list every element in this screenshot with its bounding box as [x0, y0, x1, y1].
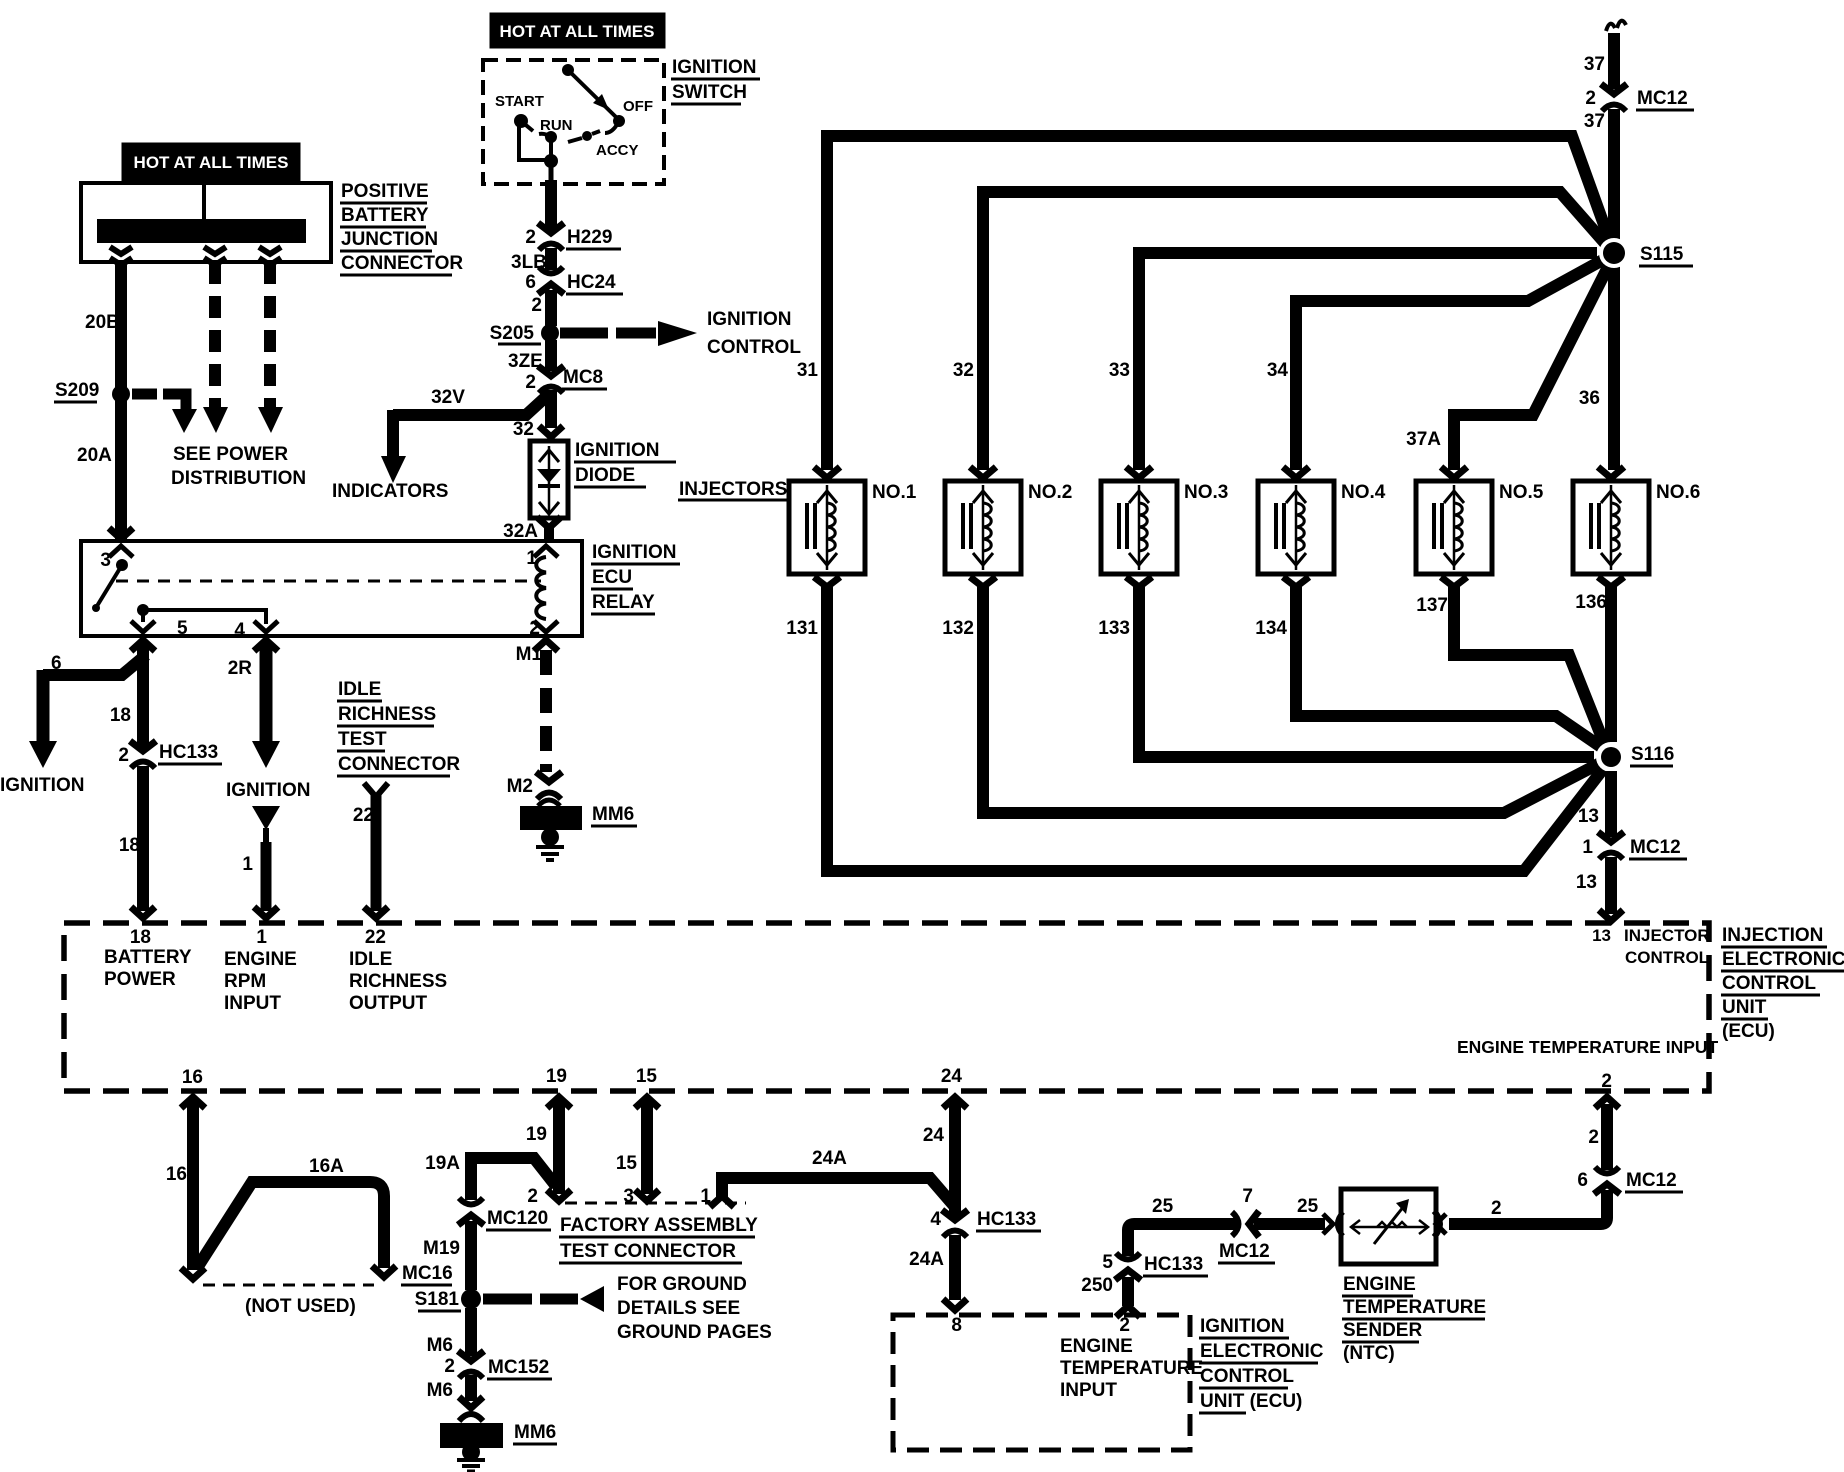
svg-text:1: 1 [526, 548, 537, 569]
node S115 [1599, 238, 1629, 268]
connector MC8 [538, 366, 564, 393]
svg-text:ELECTRONIC: ELECTRONIC [1200, 1341, 1324, 1362]
underlines sender circuit [976, 1230, 1041, 1233]
svg-text:MC12: MC12 [1626, 1170, 1677, 1191]
relay actuation dashed link [116, 580, 541, 583]
svg-text:GROUND PAGES: GROUND PAGES [617, 1322, 772, 1343]
svg-text:4: 4 [930, 1209, 941, 1230]
node S116 [1596, 742, 1626, 772]
contact ACCY [582, 131, 592, 141]
svg-text:RICHNESS: RICHNESS [349, 971, 447, 992]
wire 6 branch [43, 655, 146, 675]
connector MC120 [458, 1198, 484, 1225]
ECU pin 13 entry fork [1599, 910, 1623, 921]
svg-text:13: 13 [1576, 872, 1597, 893]
connector MC12 (13) [1598, 832, 1624, 859]
svg-text:2: 2 [529, 618, 540, 639]
svg-text:13: 13 [1592, 926, 1611, 945]
svg-text:CONNECTOR: CONNECTOR [338, 754, 460, 775]
wire 36 [1608, 262, 1620, 470]
svg-text:1: 1 [256, 927, 267, 948]
wire power feed 2 (dashed) [209, 262, 221, 407]
svg-text:FACTORY ASSEMBLY: FACTORY ASSEMBLY [560, 1215, 758, 1236]
svg-text:M1: M1 [516, 644, 543, 665]
svg-text:S115: S115 [1640, 244, 1684, 265]
svg-text:32: 32 [513, 419, 534, 440]
svg-text:4: 4 [234, 620, 245, 641]
svg-text:32A: 32A [503, 521, 538, 542]
svg-text:134: 134 [1255, 618, 1287, 639]
svg-text:IGNITION: IGNITION [226, 780, 310, 801]
svg-text:ACCY: ACCY [596, 142, 639, 159]
svg-text:1: 1 [242, 854, 253, 875]
svg-text:S209: S209 [55, 380, 99, 401]
svg-text:IGNITION: IGNITION [592, 542, 676, 563]
svg-text:S181: S181 [415, 1289, 460, 1310]
svg-text:2: 2 [525, 227, 536, 248]
svg-text:3: 3 [623, 1186, 634, 1207]
underline S209 [54, 401, 97, 404]
underline positive battery junction connector [340, 202, 427, 205]
svg-text:TEMPERATURE: TEMPERATURE [1343, 1297, 1486, 1318]
svg-text:1: 1 [700, 1186, 711, 1207]
svg-text:24: 24 [941, 1066, 963, 1087]
relay box [81, 541, 582, 636]
svg-text:2: 2 [531, 295, 542, 316]
svg-text:ENGINE: ENGINE [224, 949, 297, 970]
svg-text:133: 133 [1098, 618, 1130, 639]
pin 24 fork [943, 1097, 967, 1108]
svg-text:15: 15 [636, 1066, 658, 1087]
wire 131 [827, 585, 1607, 871]
pin 2 below-box fork [534, 640, 558, 651]
svg-text:137: 137 [1416, 595, 1448, 616]
svg-text:25: 25 [1152, 1196, 1174, 1217]
wire 3LB [545, 248, 557, 270]
injector NO.5 [1416, 467, 1492, 587]
svg-text:MC152: MC152 [488, 1357, 549, 1378]
underlines fan area [1636, 109, 1694, 112]
wire 22 [371, 795, 382, 911]
svg-text:POWER: POWER [104, 969, 176, 990]
svg-text:INDICATORS: INDICATORS [332, 481, 448, 502]
svg-text:HC133: HC133 [977, 1209, 1036, 1230]
wire 24A lower [949, 1235, 961, 1300]
wire S181 ground ref (dashed, arrow left) [483, 1294, 532, 1305]
svg-text:MC8: MC8 [563, 367, 603, 388]
wire 32V branch [393, 394, 549, 415]
svg-text:M6: M6 [427, 1380, 453, 1401]
sender internal rheostat [1352, 1226, 1427, 1229]
svg-text:INJECTOR: INJECTOR [1624, 926, 1710, 945]
svg-text:CONTROL: CONTROL [707, 337, 801, 358]
svg-text:20B: 20B [85, 312, 120, 333]
wire 1 connector arrow [252, 806, 280, 830]
svg-text:32: 32 [953, 360, 974, 381]
injector NO.6 [1573, 467, 1649, 587]
svg-text:MM6: MM6 [592, 804, 634, 825]
svg-text:START: START [495, 93, 544, 110]
svg-text:3ZE: 3ZE [508, 351, 543, 372]
svg-text:NO.1: NO.1 [872, 482, 917, 503]
svg-text:TEST: TEST [338, 729, 387, 750]
svg-text:UNIT: UNIT [1722, 997, 1767, 1018]
svg-text:16A: 16A [309, 1156, 344, 1177]
wire 250 fork [1116, 1306, 1140, 1317]
svg-text:HOT AT ALL TIMES: HOT AT ALL TIMES [500, 22, 655, 41]
wire 31 [827, 136, 1612, 470]
svg-text:IGNITION: IGNITION [1200, 1316, 1284, 1337]
connector pin 20B [110, 247, 132, 254]
wire 19 [553, 1100, 565, 1194]
connector HC24 [538, 267, 564, 294]
svg-text:(ECU): (ECU) [1722, 1021, 1775, 1042]
sender right connector [1436, 1214, 1446, 1234]
svg-text:19: 19 [546, 1066, 567, 1087]
svg-text:IDLE: IDLE [338, 679, 381, 700]
connector HC133 (5) [1115, 1253, 1141, 1280]
label HOT AT ALL TIMES (left) [122, 143, 300, 181]
svg-text:25: 25 [1297, 1196, 1319, 1217]
svg-text:3LB: 3LB [511, 252, 547, 273]
wire 2 [1449, 1190, 1607, 1224]
positive battery junction connector box [81, 183, 331, 262]
wire 19A branch [471, 1158, 556, 1200]
svg-text:24A: 24A [909, 1249, 944, 1270]
svg-text:250: 250 [1081, 1275, 1113, 1296]
wire 37 lower [1608, 109, 1620, 243]
ECU pin 2 fork [1595, 1097, 1619, 1108]
wire M1/M2 dashed [540, 650, 552, 772]
svg-text:RUN: RUN [540, 117, 573, 134]
svg-text:3: 3 [100, 550, 111, 571]
injector NO.3 [1101, 467, 1177, 587]
node S209 [112, 385, 130, 403]
connector H229 [538, 223, 564, 250]
switch blade wire [568, 70, 618, 119]
connector pin right [259, 247, 281, 254]
svg-text:5: 5 [1102, 1252, 1113, 1273]
svg-text:DIODE: DIODE [575, 465, 635, 486]
connector pin mid [204, 247, 226, 254]
wire 18 from pin 5 [137, 644, 149, 747]
svg-text:UNIT (ECU): UNIT (ECU) [1200, 1391, 1302, 1412]
wire start to junction [519, 124, 549, 160]
svg-text:18: 18 [130, 927, 151, 948]
wire 134 [1296, 585, 1607, 751]
svg-text:RICHNESS: RICHNESS [338, 704, 436, 725]
svg-text:(NTC): (NTC) [1343, 1343, 1395, 1364]
contact OFF [613, 115, 625, 127]
svg-text:131: 131 [786, 618, 818, 639]
svg-text:TEMPERATURE: TEMPERATURE [1060, 1358, 1203, 1379]
svg-text:22: 22 [365, 927, 386, 948]
contact RUN [545, 131, 557, 143]
connector M2 [536, 772, 562, 799]
wire 25 [1128, 1224, 1237, 1256]
svg-text:BATTERY: BATTERY [104, 947, 192, 968]
svg-text:2: 2 [527, 1186, 538, 1207]
node S181 [461, 1289, 481, 1309]
ground MM6 [520, 806, 582, 830]
underlines bottom left [486, 1229, 551, 1232]
wire 37 top with break [1606, 24, 1615, 31]
wire 2 upper [1601, 1104, 1613, 1170]
svg-text:136: 136 [1575, 592, 1607, 613]
svg-text:INPUT: INPUT [1060, 1380, 1117, 1401]
svg-text:CONTROL: CONTROL [1200, 1366, 1294, 1387]
wire 15 [641, 1100, 653, 1194]
wire 37A [1454, 259, 1612, 470]
ECU pin 18 entry fork [131, 907, 155, 918]
wire 34 [1296, 256, 1610, 470]
wire 2R from pin 4 [260, 644, 273, 743]
svg-text:ELECTRONIC: ELECTRONIC [1722, 949, 1844, 970]
svg-text:H229: H229 [567, 227, 612, 248]
underlines injection ECU [1721, 946, 1827, 949]
svg-text:INJECTORS: INJECTORS [679, 479, 787, 500]
svg-text:JUNCTION: JUNCTION [341, 229, 438, 250]
svg-text:2R: 2R [228, 658, 253, 679]
injector NO.2 [945, 467, 1021, 587]
svg-text:19A: 19A [425, 1153, 460, 1174]
svg-text:18: 18 [119, 835, 140, 856]
svg-text:1: 1 [1582, 837, 1593, 858]
svg-text:IDLE: IDLE [349, 949, 392, 970]
relay lower contact [137, 604, 149, 616]
svg-text:MC16: MC16 [402, 1263, 453, 1284]
svg-text:MC12: MC12 [1630, 837, 1681, 858]
svg-text:2: 2 [1585, 88, 1596, 109]
svg-text:(NOT USED): (NOT USED) [245, 1296, 356, 1317]
pin 15 fork [635, 1097, 659, 1108]
svg-text:S205: S205 [490, 323, 535, 344]
underlines ignition switch area [671, 78, 760, 81]
svg-text:MC12: MC12 [1637, 88, 1688, 109]
svg-text:31: 31 [797, 360, 819, 381]
wire 16A loop [197, 1182, 384, 1268]
svg-text:24A: 24A [812, 1148, 847, 1169]
svg-text:33: 33 [1109, 360, 1130, 381]
svg-text:MM6: MM6 [514, 1422, 556, 1443]
wire 133 [1139, 585, 1594, 757]
svg-text:CONTROL: CONTROL [1625, 948, 1709, 967]
connector HC133 [130, 741, 156, 768]
bus bar [97, 219, 306, 243]
svg-text:13: 13 [1578, 806, 1599, 827]
svg-text:NO.4: NO.4 [1341, 482, 1386, 503]
svg-text:M19: M19 [423, 1238, 460, 1259]
svg-text:ENGINE: ENGINE [1343, 1274, 1416, 1295]
idle richness test connector fork [364, 783, 388, 797]
connector HC133 (4) [942, 1210, 968, 1237]
wire 18 lower [137, 766, 149, 911]
sender left connector [1323, 1214, 1333, 1234]
svg-text:BATTERY: BATTERY [341, 205, 429, 226]
svg-text:OFF: OFF [623, 98, 653, 115]
svg-text:SENDER: SENDER [1343, 1320, 1422, 1341]
svg-text:FOR GROUND: FOR GROUND [617, 1274, 747, 1295]
factory assembly test connector line [565, 1202, 746, 1205]
svg-text:2: 2 [525, 372, 536, 393]
wire M19 [465, 1221, 477, 1290]
svg-text:132: 132 [942, 618, 974, 639]
wire 20B/20A vertical [115, 262, 127, 541]
svg-text:2: 2 [1601, 1071, 1612, 1092]
wire 136 [1605, 585, 1617, 742]
svg-text:ECU: ECU [592, 567, 632, 588]
svg-text:36: 36 [1579, 388, 1600, 409]
underlines relay area [591, 563, 680, 566]
svg-text:2: 2 [118, 745, 129, 766]
svg-text:NO.6: NO.6 [1656, 482, 1700, 503]
svg-text:CONTROL: CONTROL [1722, 973, 1816, 994]
svg-text:2: 2 [444, 1356, 455, 1377]
svg-text:37: 37 [1584, 111, 1605, 132]
pin 2 [534, 621, 558, 632]
svg-text:INPUT: INPUT [224, 993, 281, 1014]
wire 16 [187, 1100, 199, 1270]
wire 32 [545, 390, 557, 428]
svg-text:16: 16 [182, 1067, 203, 1088]
arrow see power distribution 2 [203, 407, 228, 433]
svg-text:OUTPUT: OUTPUT [349, 993, 428, 1014]
wire into diode [539, 426, 563, 437]
relay moving contact [116, 559, 128, 571]
svg-text:HC133: HC133 [1144, 1254, 1203, 1275]
wire M6 lower [465, 1375, 477, 1401]
svg-text:IGNITION: IGNITION [707, 309, 791, 330]
wire 13 upper [1605, 771, 1617, 837]
svg-text:NO.3: NO.3 [1184, 482, 1228, 503]
ignition switch dashed box [483, 60, 664, 184]
svg-text:M2: M2 [507, 776, 533, 797]
arrow indicators [381, 456, 406, 483]
svg-text:DETAILS SEE: DETAILS SEE [617, 1298, 740, 1319]
wire 32A [537, 517, 561, 528]
svg-text:37: 37 [1584, 54, 1605, 75]
wire 24 [949, 1100, 961, 1216]
svg-text:37A: 37A [1406, 429, 1441, 450]
wire switch output [549, 161, 554, 182]
svg-text:2: 2 [1491, 1198, 1502, 1219]
switch output node [544, 154, 558, 168]
svg-text:RPM: RPM [224, 971, 266, 992]
svg-text:IGNITION: IGNITION [575, 440, 659, 461]
wire 25 right [1254, 1218, 1325, 1230]
svg-text:6: 6 [51, 653, 62, 674]
wire 3ZE [545, 340, 557, 371]
pin 5 below-box fork [131, 640, 155, 651]
connector MC12 (7) [1232, 1211, 1259, 1237]
svg-text:8: 8 [951, 1315, 962, 1336]
ground MM6 (lower) [459, 1397, 483, 1408]
svg-text:34: 34 [1267, 360, 1289, 381]
svg-text:16: 16 [166, 1164, 187, 1185]
svg-text:HC133: HC133 [159, 742, 218, 763]
pin 5 [131, 621, 155, 632]
svg-text:7: 7 [1242, 1186, 1253, 1207]
ignition ECU dashed box [893, 1315, 1190, 1450]
pin 4 [254, 621, 278, 632]
svg-text:MC120: MC120 [487, 1208, 548, 1229]
ECU pin 1 entry fork [254, 907, 278, 918]
svg-text:RELAY: RELAY [592, 592, 655, 613]
engine temperature sender box [1341, 1189, 1436, 1264]
pin 4 below-box fork [254, 640, 278, 651]
ignition diode box [530, 441, 568, 518]
arrow see power distribution 3 [258, 407, 283, 433]
svg-text:6: 6 [1577, 1170, 1588, 1191]
connector MC152 [458, 1351, 484, 1378]
pin 16 fork [181, 1097, 205, 1108]
svg-text:2: 2 [1588, 1127, 1599, 1148]
node S205 [541, 324, 559, 342]
svg-text:IGNITION: IGNITION [0, 775, 84, 796]
wire 32 [983, 192, 1611, 470]
pin 19 fork [547, 1097, 571, 1108]
svg-text:32V: 32V [431, 387, 465, 408]
svg-text:HC24: HC24 [567, 272, 616, 293]
svg-text:2: 2 [1119, 1315, 1130, 1336]
ECU pin 22 entry fork [364, 907, 388, 918]
wire power feed 3 (dashed) [264, 262, 276, 407]
relay coil [534, 546, 558, 557]
wire 137 [1454, 585, 1606, 748]
wire M6 [465, 1308, 477, 1356]
svg-text:15: 15 [616, 1153, 638, 1174]
svg-text:22: 22 [353, 805, 374, 826]
ECU box [64, 923, 1709, 1091]
svg-text:HOT AT ALL TIMES: HOT AT ALL TIMES [134, 153, 289, 172]
svg-text:SEE POWER: SEE POWER [173, 444, 288, 465]
divider [202, 185, 206, 222]
svg-text:NO.5: NO.5 [1499, 482, 1544, 503]
connector MC12 (6) [1594, 1167, 1620, 1194]
svg-text:18: 18 [110, 705, 131, 726]
wire 33 [1139, 253, 1597, 470]
not used dashed line [203, 1284, 374, 1287]
svg-text:6: 6 [525, 272, 536, 293]
wire 132 [983, 585, 1606, 813]
wire run to junction [549, 140, 553, 158]
label HOT AT ALL TIMES (top) [490, 13, 665, 48]
svg-text:IGNITION: IGNITION [672, 57, 756, 78]
svg-text:20A: 20A [77, 445, 112, 466]
wire 24A horizontal [722, 1178, 955, 1207]
svg-text:POSITIVE: POSITIVE [341, 181, 429, 202]
svg-text:S116: S116 [1631, 744, 1674, 765]
svg-text:MC12: MC12 [1219, 1241, 1270, 1262]
wire S209 branch (dashed with arrow) [132, 389, 157, 400]
svg-text:M6: M6 [427, 1335, 453, 1356]
svg-text:ENGINE TEMPERATURE INPUT: ENGINE TEMPERATURE INPUT [1457, 1037, 1719, 1057]
svg-text:DISTRIBUTION: DISTRIBUTION [171, 468, 306, 489]
switch common contact [562, 64, 574, 76]
svg-text:19: 19 [526, 1124, 547, 1145]
svg-text:SWITCH: SWITCH [672, 82, 747, 103]
svg-text:24: 24 [923, 1125, 945, 1146]
svg-text:CONNECTOR: CONNECTOR [341, 253, 463, 274]
contact START [514, 114, 528, 128]
svg-text:ENGINE: ENGINE [1060, 1336, 1133, 1357]
wire 13 lower [1605, 857, 1617, 914]
connector MC12 (37) [1601, 84, 1627, 111]
svg-text:TEST CONNECTOR: TEST CONNECTOR [560, 1241, 736, 1262]
factory pin 1 fork [710, 1196, 734, 1207]
svg-text:5: 5 [177, 618, 188, 639]
injector NO.4 [1258, 467, 1334, 587]
